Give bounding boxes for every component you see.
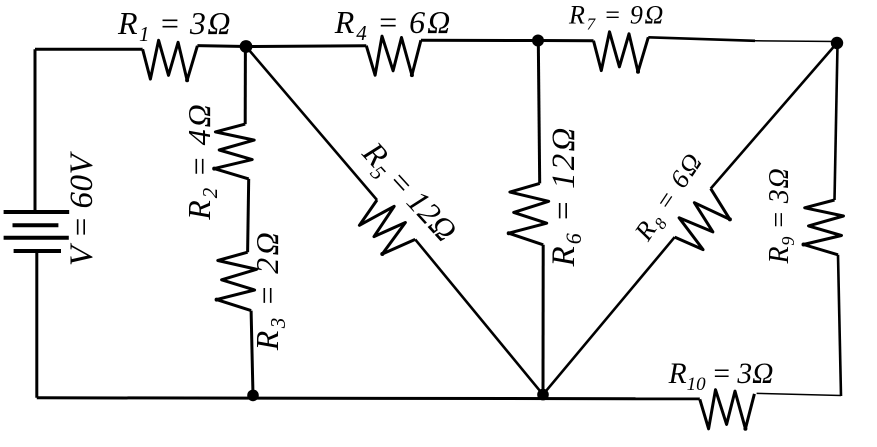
wire R8 to node C3 <box>711 43 837 189</box>
resistor R4 <box>366 36 421 75</box>
wire bottom horizontal <box>37 398 700 399</box>
svg-text:R8 = 6Ω: R8 = 6Ω <box>628 146 712 248</box>
svg-text:R1 = 3Ω: R1 = 3Ω <box>117 5 232 46</box>
wire node C3 down to R9 <box>835 45 838 200</box>
svg-text:R6 = 12Ω: R6 = 12Ω <box>546 125 586 267</box>
node D junction dot <box>247 390 259 402</box>
svg-text:R4 = 6Ω: R4 = 6Ω <box>334 4 453 45</box>
resistor R5 <box>359 200 415 254</box>
svg-text:R5 = 12Ω: R5 = 12Ω <box>352 134 465 252</box>
battery V1 plate long lower <box>4 236 69 240</box>
resistor R6 <box>509 183 549 244</box>
wire node E to R8 <box>543 237 675 395</box>
svg-text:R9 = 3Ω: R9 = 3Ω <box>764 167 798 264</box>
wire node B2 to R7 <box>538 39 594 42</box>
resistor R1 <box>143 40 198 80</box>
svg-text:V = 60V: V = 60V <box>64 151 100 267</box>
wire node A to R5 <box>246 47 377 201</box>
node A junction dot <box>240 40 253 53</box>
battery V1 plate short upper <box>13 223 59 227</box>
resistor R10 <box>700 390 755 429</box>
svg-text:R3 = 2Ω: R3 = 2Ω <box>249 230 290 351</box>
wire bottom-left vertical <box>35 251 38 398</box>
wire R3 to node D <box>251 311 253 396</box>
wire R4 to node B2 <box>421 39 538 42</box>
svg-text:R10 = 3Ω: R10 = 3Ω <box>668 358 774 395</box>
svg-text:R7 = 9Ω: R7 = 9Ω <box>568 1 665 34</box>
resistor R9 <box>804 200 844 255</box>
battery V1 plate short bottom <box>14 249 61 253</box>
wire R6 to node E <box>542 245 545 395</box>
resistor R2 <box>214 124 254 179</box>
node C3 junction dot <box>831 37 843 49</box>
wire R7 to node C3 thick part <box>648 37 755 41</box>
wire corner to R10 thin <box>757 393 841 395</box>
node B2 junction dot <box>532 35 544 47</box>
wire R9 down to corner <box>838 255 841 396</box>
wire R5 to node E <box>415 239 543 394</box>
resistor R7 <box>594 32 649 72</box>
wire node A down to R2 <box>244 47 247 125</box>
wire top from battery to R1 <box>35 48 143 51</box>
node E junction dot <box>537 389 549 401</box>
wire top-left vertical <box>34 49 37 212</box>
wire R1 to node A to R4 <box>197 44 366 48</box>
battery V1 plate long top <box>4 210 70 214</box>
resistor R8 <box>675 189 730 250</box>
resistor R3 <box>217 252 257 310</box>
wire node B2 down to R6 <box>538 41 539 184</box>
wire R2 to R3 <box>248 179 249 252</box>
wire R7 to node C3 thin part <box>755 40 837 43</box>
svg-text:R2 = 4Ω: R2 = 4Ω <box>181 102 222 221</box>
